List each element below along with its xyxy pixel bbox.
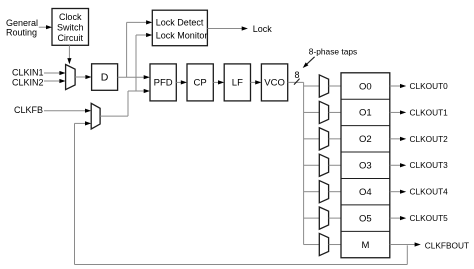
wire M phase mux output [329,244,341,246]
wire CP output to next block [213,80,224,84]
wire O0 to CLKOUT0 [390,84,406,88]
wire Clock Switch Circuit output down to input mux select [67,45,71,64]
wire O4 to CLKOUT4 [390,190,406,194]
svg-text:CLKIN1: CLKIN1 [12,68,44,78]
svg-text:Lock: Lock [253,24,273,34]
wire node junction up to Lock Detect input [127,20,153,77]
svg-text:O1: O1 [359,108,372,119]
svg-text:Lock Monitor: Lock Monitor [156,31,208,41]
svg-text:Switch: Switch [57,23,84,33]
block output counters O0-O5 and M [341,73,390,258]
phase mux for M [319,233,328,255]
wire O3 to CLKOUT3 [390,163,406,167]
bus width slash mark [294,79,300,85]
label General Routing input net [6,18,38,37]
wire bus tap to O4 phase mux [304,191,320,193]
feedback clock mux [91,103,100,129]
wire CLKFB to feedback mux [44,109,91,113]
wire 8-phase tap vertical bus [303,82,305,244]
svg-text:CLKOUT3: CLKOUT3 [410,160,449,170]
block Clock Switch Circuit [52,9,89,46]
block CP [187,64,213,101]
svg-text:Circuit: Circuit [57,33,83,43]
phase mux for O2 [319,128,328,150]
wire LF output to next block [251,80,262,84]
wire O5 to CLKOUT5 [390,216,406,220]
wire O1 phase mux output [329,111,341,113]
wire feedback mux output to PFD feedback input [100,89,150,116]
phase mux for O3 [319,154,328,176]
svg-text:O3: O3 [359,161,372,172]
block PFD [150,64,176,101]
svg-text:8: 8 [294,70,299,80]
input clock mux [66,65,76,90]
wire O0 phase mux output [329,85,341,87]
phase mux for O4 [319,181,328,203]
wire bus tap to O5 phase mux [304,217,320,219]
wire O5 phase mux output [329,217,341,219]
block LF [224,64,250,101]
svg-text:CLKOUT1: CLKOUT1 [410,107,449,117]
wire feedback loop into feedback mux [75,121,408,264]
phase mux for O1 [319,101,328,123]
svg-text:O4: O4 [359,187,372,198]
svg-text:Lock Detect: Lock Detect [156,17,204,27]
wire bus tap to O3 phase mux [304,164,320,166]
svg-text:M: M [361,240,369,251]
svg-text:CLKOUT2: CLKOUT2 [410,134,449,144]
svg-text:CLKOUT0: CLKOUT0 [410,81,449,91]
svg-text:VCO: VCO [264,78,285,89]
wire O1 to CLKOUT1 [390,110,406,114]
svg-text:PFD: PFD [154,78,173,89]
svg-text:O0: O0 [359,81,372,92]
svg-text:O5: O5 [359,213,372,224]
phase mux for O5 [319,207,328,229]
svg-text:Clock: Clock [59,12,82,22]
block VCO [261,64,287,101]
wire PFD output to next block [176,80,187,84]
svg-text:CLKOUT4: CLKOUT4 [410,187,449,197]
phase mux for O0 [319,75,328,97]
wire input mux to D block [75,75,92,79]
wire O2 to CLKOUT2 [390,137,406,141]
wire O3 phase mux output [329,164,341,166]
wire O4 phase mux output [329,191,341,193]
svg-text:O2: O2 [359,134,372,145]
callout arrow from 8-phase taps label to bus [303,57,315,68]
wire General Routing to Clock Switch Circuit [39,25,52,29]
wire M to CLKFBOUT with feedback tap [390,242,421,246]
svg-text:Routing: Routing [6,27,37,37]
wire O2 phase mux output [329,138,341,140]
wire bus tap to M phase mux [304,244,320,246]
svg-text:8-phase taps: 8-phase taps [309,47,357,57]
wire node junction up to Lock Monitor input [136,33,152,91]
wire VCO output to 8-phase bus [288,81,304,83]
wire bus tap to O2 phase mux [304,138,320,140]
svg-text:CP: CP [194,78,207,89]
wire bus tap to O0 phase mux [304,85,320,87]
svg-text:CLKIN2: CLKIN2 [12,78,44,88]
wire D output to PFD reference input [118,75,150,79]
wire CLKIN2 to input mux [44,79,66,83]
wire Lock Detect output to Lock [207,26,248,30]
svg-text:CLKOUT5: CLKOUT5 [410,213,449,223]
wire bus tap to O1 phase mux [304,111,320,113]
svg-text:LF: LF [232,78,243,89]
svg-text:D: D [101,72,109,84]
svg-text:CLKFBOUT: CLKFBOUT [425,241,469,251]
block Lock Detect / Lock Monitor [152,10,207,46]
block D (input divider) [92,64,118,91]
wire CLKIN1 to input mux [44,71,66,75]
svg-text:CLKFB: CLKFB [14,105,43,115]
